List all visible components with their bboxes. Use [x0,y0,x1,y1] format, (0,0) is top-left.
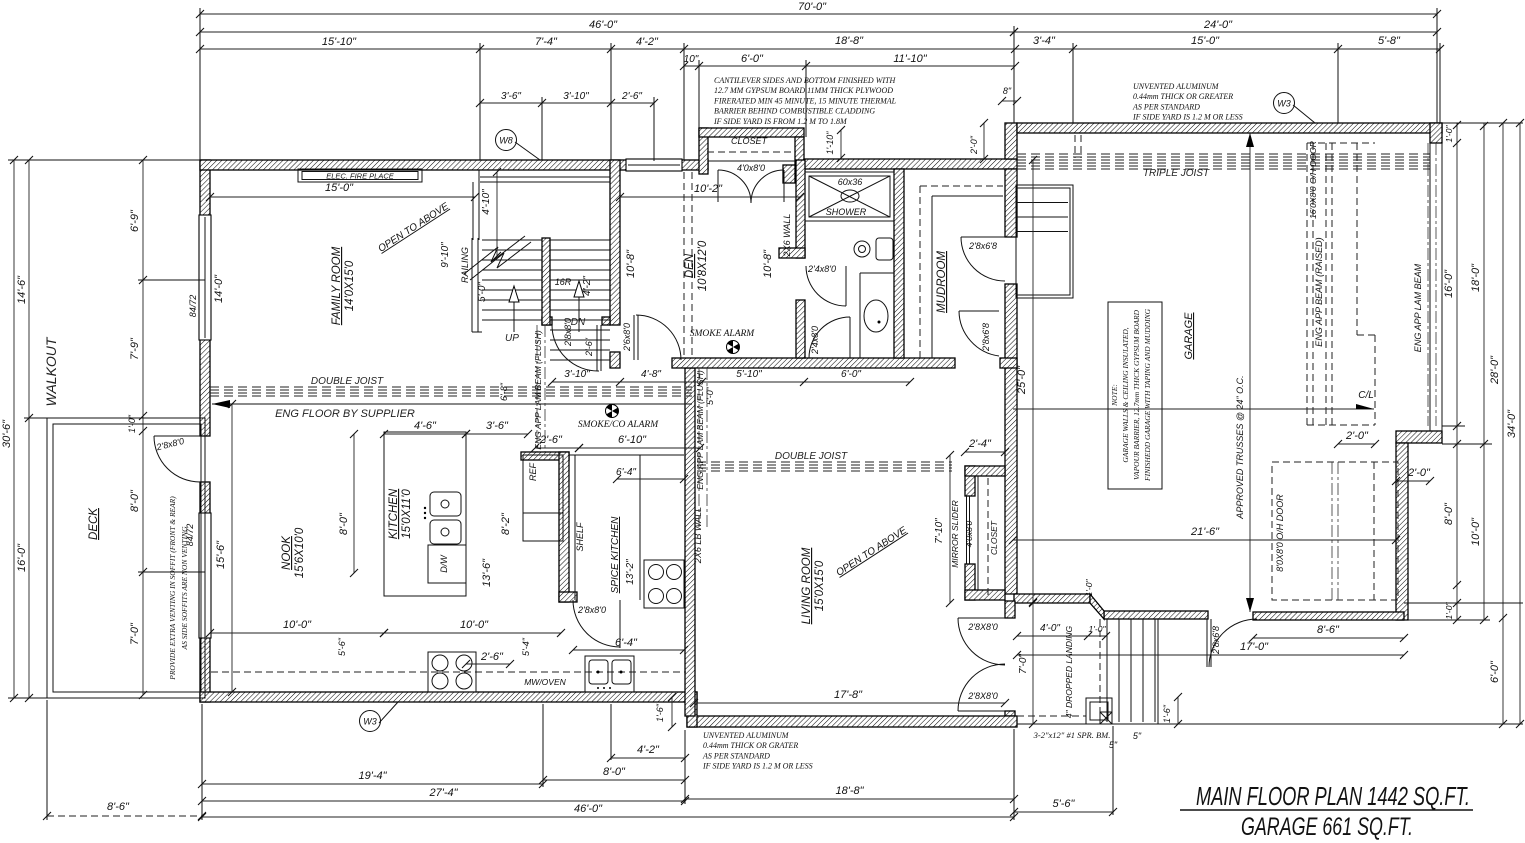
svg-text:10'-0": 10'-0" [1470,517,1482,546]
svg-text:2'-4": 2'-4" [968,438,992,450]
svg-text:IF SIDE YARD IS FROM 1.2 M TO: IF SIDE YARD IS FROM 1.2 M TO 1.8M [713,117,848,126]
svg-text:ELEC. FIRE PLACE: ELEC. FIRE PLACE [326,172,395,181]
svg-text:MIRROR SLIDER: MIRROR SLIDER [950,500,960,568]
svg-text:5'-10": 5'-10" [736,369,762,380]
svg-text:DOUBLE JOIST: DOUBLE JOIST [311,376,384,387]
svg-text:1'-0": 1'-0" [1084,579,1094,597]
svg-text:3'-6": 3'-6" [486,420,509,432]
svg-text:W3: W3 [1277,99,1291,109]
svg-text:6'-0": 6'-0" [841,369,861,380]
svg-text:7'-0": 7'-0" [1018,654,1029,674]
svg-text:2'8X8'0: 2'8X8'0 [967,622,997,632]
svg-text:2'8x8'0: 2'8x8'0 [563,318,573,347]
svg-text:4" DROPPED LANDING: 4" DROPPED LANDING [1064,625,1074,718]
svg-text:VAPOUR BARRIER, 12.7mm THICK G: VAPOUR BARRIER, 12.7mm THICK GYPSUM BOAR… [1132,309,1141,480]
svg-text:ENG APP BEAM (RAISED): ENG APP BEAM (RAISED) [1314,237,1324,346]
svg-text:5'-0": 5'-0" [477,282,488,302]
svg-text:IF SIDE YARD IS 1.2 M OR LESS: IF SIDE YARD IS 1.2 M OR LESS [702,762,813,771]
svg-text:1'-0": 1'-0" [1089,624,1107,634]
svg-text:9'-10": 9'-10" [440,242,451,268]
svg-text:2'-6": 2'-6" [584,337,594,357]
svg-text:15'6X10'0: 15'6X10'0 [294,527,306,578]
svg-text:DN: DN [571,317,586,328]
svg-text:6'-10": 6'-10" [618,434,647,446]
svg-text:GARAGE: GARAGE [1183,312,1195,360]
svg-text:19'-4": 19'-4" [358,770,387,782]
svg-text:MW/OVEN: MW/OVEN [524,677,566,687]
svg-text:3'-6": 3'-6" [501,91,521,102]
svg-text:FINISHEDD GARAGE WITH TAPING A: FINISHEDD GARAGE WITH TAPING AND MUDDING [1143,308,1152,482]
svg-text:10'-8": 10'-8" [762,249,774,278]
svg-text:1'-6": 1'-6" [655,703,665,722]
svg-text:4'-2": 4'-2" [582,276,593,296]
svg-text:16'-0": 16'-0" [16,543,28,572]
svg-text:10'-8": 10'-8" [625,249,637,278]
svg-text:BARRIER BEHIND COMBUSTIBLE CLA: BARRIER BEHIND COMBUSTIBLE CLADDING [714,107,875,116]
svg-text:2X6 LB WALL: 2X6 LB WALL [693,507,703,564]
svg-text:SHELF: SHELF [575,522,585,552]
svg-text:84/72: 84/72 [188,295,198,318]
svg-text:ENG APP LAM BEAM (FLUSH): ENG APP LAM BEAM (FLUSH) [695,370,705,490]
svg-text:2'-6": 2'-6" [621,91,642,102]
svg-text:4'-0": 4'-0" [1040,623,1060,634]
svg-text:2'8x6'8: 2'8x6'8 [968,241,997,251]
svg-text:MUDROOM: MUDROOM [936,251,948,313]
svg-text:16R: 16R [555,277,572,287]
svg-text:30'-6": 30'-6" [1,419,13,448]
svg-text:15'0X11'0: 15'0X11'0 [401,489,413,539]
svg-text:NOTE:: NOTE: [1110,384,1119,407]
svg-text:14'-6": 14'-6" [16,275,28,304]
svg-text:8'-6": 8'-6" [107,801,130,813]
svg-text:8": 8" [1003,86,1012,96]
svg-text:PROVIDE EXTRA VENTING IN SOFFI: PROVIDE EXTRA VENTING IN SOFFIT (FRONT &… [168,496,177,681]
svg-text:4'0x8'0: 4'0x8'0 [737,163,765,173]
svg-text:AS SIDE SOFFITS ARE NON VENTIN: AS SIDE SOFFITS ARE NON VENTING [180,526,189,651]
svg-text:25'-0": 25'-0" [1016,365,1028,395]
svg-text:SHOWER: SHOWER [826,207,867,217]
svg-text:6'-8": 6'-8" [499,382,509,401]
svg-text:2'-0": 2'-0" [1345,430,1369,442]
svg-text:2'4x8'0: 2'4x8'0 [810,326,820,355]
svg-text:15'-0": 15'-0" [325,182,354,194]
svg-text:6'-4": 6'-4" [615,637,638,649]
svg-text:4'-8": 4'-8" [641,369,661,380]
svg-text:8'-0": 8'-0" [603,766,626,778]
svg-text:ENG APP LAM BEAM (FLUSH): ENG APP LAM BEAM (FLUSH) [533,330,543,450]
svg-text:60x36: 60x36 [838,177,863,187]
svg-text:18'-8": 18'-8" [835,785,864,797]
svg-text:70'-0": 70'-0" [798,1,827,13]
svg-text:ENG APP LAM BEAM: ENG APP LAM BEAM [1413,263,1423,352]
svg-text:18'-0": 18'-0" [1470,263,1482,292]
svg-text:12.7 MM GYPSUM BOARD,11MM THIC: 12.7 MM GYPSUM BOARD,11MM THICK PLYWOOD [714,86,893,95]
svg-text:4'-10": 4'-10" [481,189,492,215]
svg-text:11'-10": 11'-10" [893,53,927,65]
svg-text:1'-10": 1'-10" [825,131,835,155]
svg-text:13'-6": 13'-6" [481,558,493,587]
svg-text:DEN: DEN [684,253,696,278]
svg-text:CLOSET: CLOSET [989,520,999,555]
svg-text:FIRERATED MIN 45 MINUTE, 15 MI: FIRERATED MIN 45 MINUTE, 15 MINUTE THERM… [713,96,897,105]
svg-text:10'-2": 10'-2" [694,183,723,195]
svg-text:1'-0": 1'-0" [1444,125,1454,143]
svg-text:46'-0": 46'-0" [589,19,618,31]
svg-text:TRIPLE JOIST: TRIPLE JOIST [1143,168,1210,179]
svg-text:10'8X12'0: 10'8X12'0 [697,240,709,291]
svg-text:2'-6": 2'-6" [539,434,563,446]
svg-text:0.44mm THICK OR GREATER: 0.44mm THICK OR GREATER [1133,92,1233,101]
svg-text:NOOK: NOOK [281,535,293,570]
svg-text:C/L: C/L [1358,390,1374,401]
svg-text:0.44mm THICK OR GRATER: 0.44mm THICK OR GRATER [703,741,798,750]
svg-text:3-2"x12" #1 SPR. BM.: 3-2"x12" #1 SPR. BM. [1033,730,1111,740]
svg-text:17'-0": 17'-0" [1240,641,1269,653]
svg-text:6'-0": 6'-0" [1489,660,1501,683]
svg-text:DOUBLE JOIST: DOUBLE JOIST [775,451,848,462]
svg-text:2'8X8'0: 2'8X8'0 [967,691,997,701]
svg-text:17'-8": 17'-8" [834,689,863,701]
svg-text:SPICE KITCHEN: SPICE KITCHEN [610,516,621,593]
svg-text:8'-2": 8'-2" [500,512,512,535]
svg-text:27'-4": 27'-4" [428,787,458,799]
svg-text:46'-0": 46'-0" [574,803,603,815]
svg-text:16'-0": 16'-0" [1443,269,1455,298]
svg-text:2'-0": 2'-0" [1407,467,1431,479]
svg-text:15'-0": 15'-0" [1191,35,1220,47]
svg-text:2'6x8'0: 2'6x8'0 [622,323,632,352]
svg-text:8'0X8'0 O/H DOOR: 8'0X8'0 O/H DOOR [1275,494,1285,572]
svg-text:2'8x6'8: 2'8x6'8 [981,323,991,352]
svg-text:10": 10" [684,54,699,65]
svg-text:15'-6": 15'-6" [215,540,227,569]
svg-text:CANTILEVER SIDES AND BOTTOM FI: CANTILEVER SIDES AND BOTTOM FINISHED WIT… [714,76,896,85]
svg-text:2'4x8'0: 2'4x8'0 [807,264,836,274]
svg-text:5'-6": 5'-6" [337,637,347,656]
svg-text:6'-4": 6'-4" [616,467,636,478]
svg-text:16'0X8'0 O/H DOOR: 16'0X8'0 O/H DOOR [1308,141,1318,219]
svg-text:28'-0": 28'-0" [1489,355,1501,385]
svg-text:6'-9": 6'-9" [129,209,141,232]
svg-text:15'-10": 15'-10" [322,36,357,48]
svg-text:4'0x8'0: 4'0x8'0 [964,521,974,548]
svg-text:SMOKE/CO ALARM: SMOKE/CO ALARM [578,420,659,430]
svg-text:15'0X15'0: 15'0X15'0 [814,560,826,611]
svg-text:5'-4": 5'-4" [521,637,531,656]
svg-text:UP: UP [505,333,519,344]
svg-text:SMOKE ALARM: SMOKE ALARM [690,329,756,339]
svg-text:FAMILY ROOM: FAMILY ROOM [331,246,343,325]
svg-text:4'-6": 4'-6" [414,420,437,432]
svg-text:APPROVED TRUSSES @ 24" O.C.: APPROVED TRUSSES @ 24" O.C. [1235,375,1245,519]
svg-text:MAIN FLOOR PLAN 1442 SQ.FT.: MAIN FLOOR PLAN 1442 SQ.FT. [1196,781,1470,811]
svg-text:RAILING: RAILING [460,247,470,283]
svg-text:10'-0": 10'-0" [283,619,312,631]
svg-text:WALKOUT: WALKOUT [43,336,59,406]
svg-text:7'-0": 7'-0" [129,622,141,645]
svg-text:8'-0": 8'-0" [129,489,141,512]
svg-text:13'-2": 13'-2" [625,559,636,585]
svg-text:8'-6": 8'-6" [1317,624,1340,636]
svg-text:2'-0": 2'-0" [969,135,979,155]
svg-text:14'-0": 14'-0" [213,274,225,303]
svg-text:7'-9": 7'-9" [129,337,141,360]
svg-text:5'-6": 5'-6" [1053,798,1076,810]
svg-text:34'-0": 34'-0" [1506,409,1518,438]
svg-text:AS PER STANDARD: AS PER STANDARD [1132,102,1200,111]
svg-text:2'8x8'0: 2'8x8'0 [577,605,606,615]
svg-text:8'-0": 8'-0" [1443,502,1455,525]
svg-text:2'-6": 2'-6" [480,651,504,663]
svg-text:W3: W3 [363,717,377,727]
svg-text:REF: REF [528,462,538,481]
svg-text:5": 5" [1133,731,1142,741]
svg-text:3'-10": 3'-10" [563,91,589,102]
svg-text:KITCHEN: KITCHEN [388,488,400,539]
svg-text:D/W: D/W [439,554,449,573]
svg-text:7'-4": 7'-4" [535,36,558,48]
svg-text:LIVING ROOM: LIVING ROOM [801,547,813,624]
svg-text:ENG FLOOR BY SUPPLIER: ENG FLOOR BY SUPPLIER [275,408,415,420]
svg-text:5'-0": 5'-0" [705,386,715,405]
svg-text:10'-0": 10'-0" [460,619,489,631]
svg-text:3'-10": 3'-10" [564,369,590,380]
svg-text:24'-0": 24'-0" [1203,19,1233,31]
svg-text:4'-2": 4'-2" [636,36,659,48]
svg-text:W8: W8 [499,136,513,146]
svg-text:6'-0": 6'-0" [741,53,764,65]
svg-text:UNVENTED ALUMINUM: UNVENTED ALUMINUM [703,731,790,740]
svg-text:2X6 WALL: 2X6 WALL [782,214,792,258]
svg-text:2'8x6'8: 2'8x6'8 [1211,626,1221,655]
svg-text:GARAGE 661 SQ.FT.: GARAGE 661 SQ.FT. [1241,813,1413,841]
svg-text:18'-8": 18'-8" [835,35,864,47]
svg-text:3'-4": 3'-4" [1033,35,1056,47]
svg-text:1'-6": 1'-6" [1162,704,1172,723]
svg-text:AS PER STANDARD: AS PER STANDARD [702,751,770,760]
svg-text:DECK: DECK [88,507,100,540]
svg-text:UNVENTED ALUMINUM: UNVENTED ALUMINUM [1133,82,1220,91]
svg-text:4'-2": 4'-2" [637,744,660,756]
svg-text:IF SIDE YARD IS 1.2 M OR LESS: IF SIDE YARD IS 1.2 M OR LESS [1132,113,1243,122]
svg-text:CLOSET: CLOSET [731,136,769,146]
svg-text:GARAGE WALLS & CEILING INSULAT: GARAGE WALLS & CEILING INSULATED, [1121,327,1130,462]
svg-text:1'-0": 1'-0" [127,414,137,433]
svg-text:14'0X15'0: 14'0X15'0 [344,260,356,311]
svg-text:5'-8": 5'-8" [1378,35,1401,47]
svg-text:7'-10": 7'-10" [934,518,945,544]
svg-text:8'-0": 8'-0" [338,512,350,535]
svg-text:21'-6": 21'-6" [1190,526,1220,538]
svg-text:1'-0": 1'-0" [1444,602,1454,620]
